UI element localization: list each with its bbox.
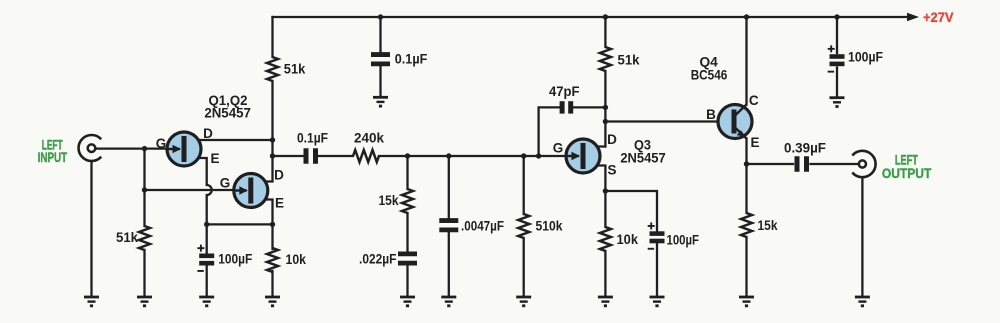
svg-text:B: B bbox=[706, 107, 716, 122]
svg-text:D: D bbox=[607, 132, 617, 147]
svg-text:100µF: 100µF bbox=[848, 49, 883, 65]
svg-text:C: C bbox=[749, 93, 759, 108]
svg-text:E: E bbox=[275, 196, 284, 211]
svg-text:.022µF: .022µF bbox=[359, 251, 397, 267]
svg-text:0.39µF: 0.39µF bbox=[784, 140, 826, 156]
svg-text:51k: 51k bbox=[284, 61, 306, 77]
svg-text:D: D bbox=[274, 168, 284, 183]
svg-text:.0047µF: .0047µF bbox=[461, 218, 504, 234]
svg-text:BC546: BC546 bbox=[691, 66, 728, 82]
svg-text:510k: 510k bbox=[536, 218, 563, 234]
svg-text:D: D bbox=[203, 126, 213, 141]
svg-text:0.1µF: 0.1µF bbox=[297, 130, 328, 146]
svg-text:15k: 15k bbox=[379, 192, 399, 208]
svg-text:G: G bbox=[553, 141, 564, 156]
svg-text:+27V: +27V bbox=[923, 9, 954, 25]
svg-text:S: S bbox=[607, 163, 616, 178]
svg-text:E: E bbox=[750, 135, 759, 150]
svg-text:2N5457: 2N5457 bbox=[204, 105, 251, 121]
svg-text:15k: 15k bbox=[758, 217, 778, 233]
svg-text:51k: 51k bbox=[618, 52, 640, 68]
svg-text:100µF: 100µF bbox=[218, 251, 252, 267]
svg-text:INPUT: INPUT bbox=[38, 149, 68, 165]
svg-text:2N5457: 2N5457 bbox=[620, 149, 665, 165]
svg-text:G: G bbox=[220, 176, 231, 191]
svg-text:51k: 51k bbox=[116, 229, 138, 245]
svg-text:100µF: 100µF bbox=[667, 232, 700, 248]
svg-text:47pF: 47pF bbox=[549, 83, 580, 99]
svg-text:OUTPUT: OUTPUT bbox=[882, 165, 932, 181]
svg-text:G: G bbox=[156, 136, 167, 151]
svg-text:0.1µF: 0.1µF bbox=[395, 50, 428, 66]
svg-text:10k: 10k bbox=[617, 231, 639, 247]
svg-text:10k: 10k bbox=[286, 251, 307, 267]
svg-text:E: E bbox=[210, 151, 219, 166]
svg-text:240k: 240k bbox=[354, 130, 384, 146]
